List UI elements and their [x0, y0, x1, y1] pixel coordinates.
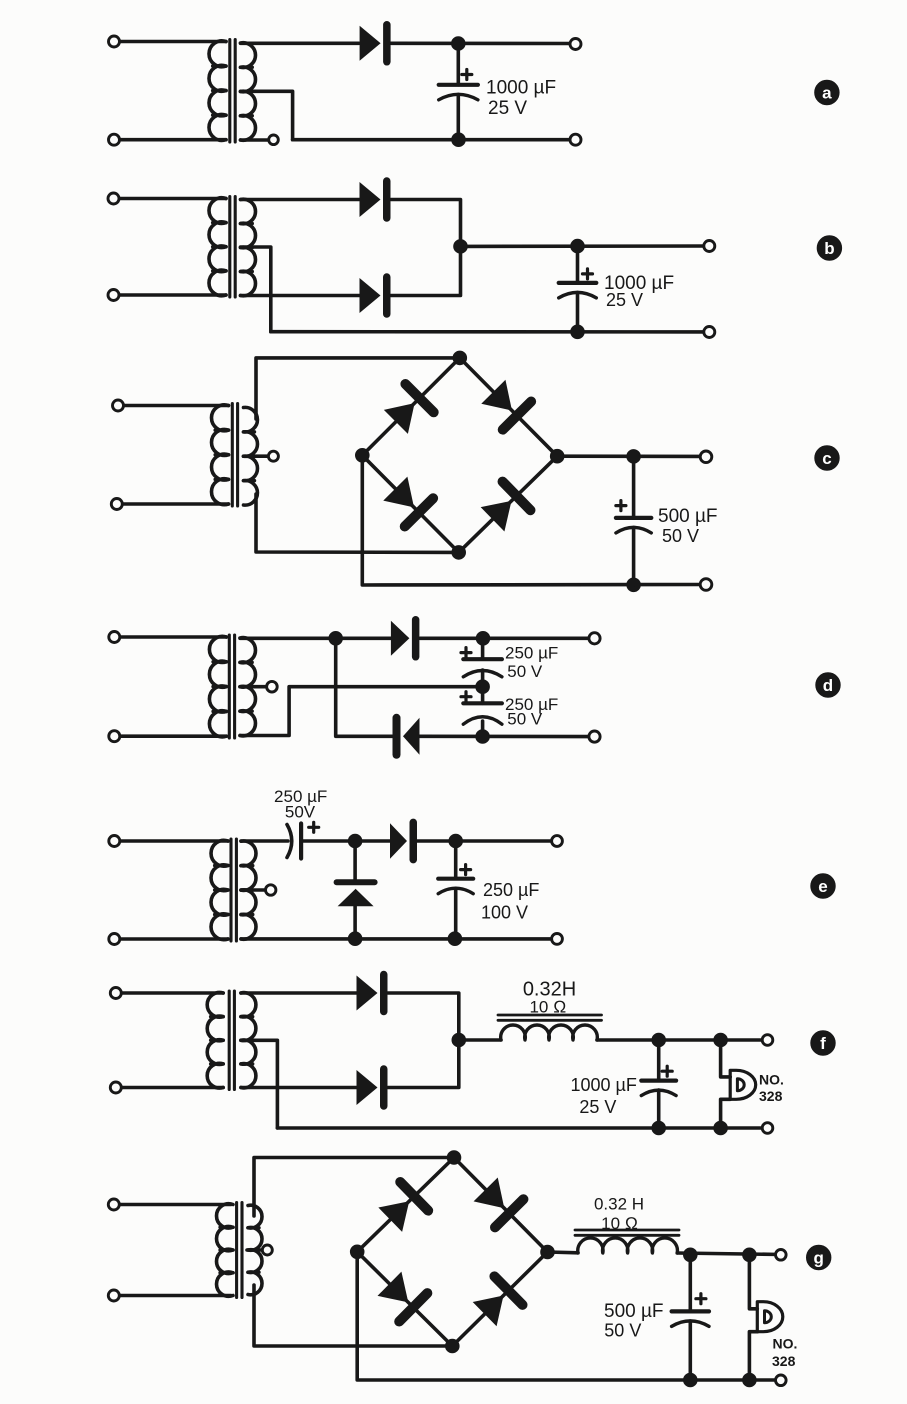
- capacitor C2e 250uF: [438, 865, 473, 894]
- wire bottom rail a: [293, 138, 576, 142]
- terminal input bottom g: [108, 1290, 119, 1301]
- label L1g value: [594, 1195, 644, 1234]
- badge b: [817, 236, 841, 260]
- wire junction drop d: [336, 638, 394, 736]
- node cap top a: [452, 37, 466, 51]
- node lamp bottom g: [743, 1373, 757, 1387]
- wire secondary tap e: [241, 888, 265, 892]
- wire cap1 bottom lead d: [481, 670, 485, 687]
- svg-text:b: b: [824, 239, 834, 258]
- wire top diode to cap d: [420, 636, 595, 640]
- wire bottom diode to cap d: [420, 734, 595, 738]
- wire cap bottom lead f: [657, 1090, 661, 1128]
- wire cap top lead a: [456, 44, 460, 85]
- label lamp type g: [772, 1336, 797, 1370]
- transformer T1d primary winding: [209, 636, 226, 736]
- node caps middle d: [476, 680, 490, 694]
- label C1b value: [604, 273, 674, 310]
- terminal output bottom f: [762, 1123, 773, 1134]
- wire secondary bottom to diode b: [241, 294, 360, 298]
- diode D1f top: [357, 975, 384, 1012]
- wire lamp top lead f: [721, 1040, 731, 1077]
- label C1e value: [274, 787, 327, 822]
- node cap bottom e: [448, 932, 462, 946]
- node lamp top f: [714, 1033, 728, 1047]
- wire bottom rail b: [271, 330, 710, 334]
- svg-text:c: c: [822, 449, 831, 468]
- node lamp top g: [743, 1248, 757, 1262]
- wire secondary tap to bottom rail f: [241, 1040, 278, 1128]
- svg-text:50 V: 50 V: [507, 710, 543, 729]
- wire primary top lead b: [114, 197, 227, 201]
- transformer T1d secondary winding: [240, 638, 256, 736]
- terminal secondary tap unused d: [267, 681, 278, 692]
- transformer T1f secondary winding: [241, 993, 256, 1088]
- transformer T1f primary winding: [207, 992, 223, 1088]
- transformer T1a primary winding: [209, 41, 226, 141]
- node bridge bottom g: [446, 1339, 460, 1353]
- wire secondary top to series cap e: [241, 839, 288, 843]
- wire primary top lead c: [118, 404, 229, 408]
- diode D2f bottom: [357, 1069, 384, 1106]
- svg-text:50 V: 50 V: [662, 526, 699, 546]
- svg-text:328: 328: [759, 1088, 783, 1104]
- capacitor C1b 1000uF: [559, 269, 597, 298]
- bridge diode D3c (left-bottom): [381, 475, 433, 527]
- wire secondary tap to bottom rail b: [241, 247, 271, 332]
- capacitor C1d 250uF: [461, 648, 502, 677]
- transformer T1g core: [237, 1203, 242, 1298]
- node cap bottom b: [571, 325, 585, 339]
- transformer T1b core: [230, 197, 235, 298]
- wire bridge left to bottom rail g: [357, 1252, 781, 1380]
- svg-text:10 Ω: 10 Ω: [601, 1214, 638, 1233]
- node bridge top g: [447, 1151, 461, 1165]
- diode D1a: [360, 25, 387, 62]
- diode D2d bottom (reversed): [397, 718, 420, 755]
- wire primary top lead a: [114, 40, 226, 44]
- transformer T1e secondary winding: [241, 841, 256, 939]
- transformer T1a secondary winding: [241, 43, 256, 141]
- svg-text:a: a: [822, 84, 832, 103]
- svg-text:500 µF: 500 µF: [604, 1301, 664, 1322]
- label C1d value: [505, 644, 558, 682]
- bridge diode D1c (left-top): [382, 384, 434, 436]
- capacitor C2d 250uF: [461, 692, 502, 725]
- node cap bottom f: [652, 1121, 666, 1135]
- bridge arm bottom-right c: [459, 456, 558, 552]
- bridge arm top-left g: [357, 1158, 454, 1252]
- svg-text:g: g: [814, 1249, 824, 1268]
- node bridge top c: [453, 351, 467, 365]
- node cap top g: [684, 1248, 698, 1262]
- svg-text:500 µF: 500 µF: [658, 506, 718, 527]
- bridge arm bottom-left g: [357, 1252, 452, 1346]
- node diode feed junction d: [329, 632, 343, 646]
- inductor L1f choke 0.32H: [501, 1025, 598, 1040]
- label C2d value: [505, 695, 558, 729]
- svg-text:50 V: 50 V: [604, 1321, 641, 1341]
- label C2e value: [481, 880, 539, 923]
- transformer T1f core: [229, 991, 234, 1090]
- wire output rail top b: [461, 244, 710, 248]
- wire primary top lead e: [114, 839, 228, 843]
- bridge arm top-right c: [460, 358, 557, 456]
- transformer T1b primary winding: [209, 198, 226, 296]
- node bridge left c: [356, 449, 370, 463]
- svg-text:0.32 H: 0.32 H: [594, 1195, 644, 1214]
- bridge arm top-left c: [362, 358, 460, 455]
- wire secondary top rail d: [240, 636, 391, 640]
- terminal output top e: [552, 836, 563, 847]
- wire bottom diode to node f: [388, 1040, 459, 1088]
- bridge diode D2g (top-right): [471, 1175, 523, 1227]
- bridge diode D2c (top-right): [479, 378, 531, 430]
- wire choke to output f: [597, 1038, 768, 1042]
- node cap bottom a: [452, 133, 466, 147]
- svg-text:10 Ω: 10 Ω: [529, 998, 566, 1017]
- transformer T1a core: [230, 40, 235, 143]
- terminal input top a: [109, 36, 120, 47]
- transformer T1g primary winding: [217, 1204, 233, 1297]
- wire secondary bottom stub to bridge bottom c: [256, 494, 459, 552]
- badge d: [816, 673, 840, 697]
- terminal input bottom d: [109, 731, 120, 742]
- node bridge right g: [541, 1245, 555, 1259]
- bridge diode D1g (left-top): [376, 1182, 428, 1234]
- badge c: [815, 446, 839, 470]
- inductor L1g choke 0.32H: [578, 1238, 678, 1253]
- transformer T1c core: [232, 404, 237, 507]
- wire shunt diode top lead e: [353, 841, 357, 882]
- node cap top f: [652, 1033, 666, 1047]
- terminal input bottom e: [109, 934, 120, 945]
- node cap bottom c: [627, 578, 641, 592]
- label C1f value: [571, 1075, 637, 1117]
- wire secondary top to diode b: [241, 198, 360, 202]
- bridge arm top-right g: [454, 1158, 548, 1253]
- terminal output bottom d: [589, 731, 600, 742]
- label L1f value: [523, 979, 576, 1017]
- wire node to choke f: [459, 1038, 501, 1042]
- wire bridge right to choke g: [548, 1250, 579, 1254]
- diode D1d top: [391, 620, 416, 657]
- inductor L1f core lines: [498, 1015, 602, 1020]
- wire primary top lead f: [116, 991, 223, 995]
- transformer T1c secondary winding: [244, 407, 258, 505]
- wire primary bottom lead b: [114, 293, 227, 297]
- terminal output bottom c: [700, 579, 712, 591]
- node cap top e: [449, 834, 463, 848]
- wire primary bottom lead e: [114, 937, 228, 941]
- wire cap bottom lead g: [688, 1321, 692, 1380]
- svg-text:25 V: 25 V: [606, 290, 643, 310]
- terminal input bottom f: [110, 1082, 121, 1093]
- capacitor C1a 1000uF: [439, 70, 478, 100]
- terminal output bottom a: [570, 134, 581, 145]
- bridge arm bottom-left c: [362, 455, 458, 552]
- badge a: [815, 80, 839, 104]
- bridge arm bottom-right g: [452, 1252, 547, 1346]
- wire choke to output g: [677, 1253, 781, 1255]
- wire top diode to node f: [388, 993, 459, 1040]
- svg-text:25 V: 25 V: [488, 98, 527, 119]
- capacitor C1c 500uF: [616, 501, 651, 533]
- label C1g value: [604, 1301, 664, 1341]
- wire secondary tap g: [247, 1248, 262, 1252]
- wire primary bottom lead c: [117, 502, 229, 506]
- pilot lamp NO.328 g: [757, 1302, 783, 1332]
- wire cap bottom lead b: [576, 293, 580, 332]
- wire primary top lead g: [114, 1203, 231, 1207]
- wire diode to output e: [417, 839, 557, 843]
- wire secondary tap d: [240, 685, 267, 689]
- svg-text:d: d: [823, 676, 833, 695]
- node doubler junction e: [348, 834, 362, 848]
- terminal output top b: [704, 241, 715, 252]
- label C1c value: [658, 506, 718, 546]
- wire bridge right to output c: [557, 454, 706, 458]
- terminal input top b: [108, 193, 119, 204]
- wire cap top lead e: [454, 841, 458, 879]
- transformer T1e primary winding: [211, 840, 228, 939]
- wire series cap to node e: [301, 839, 390, 843]
- capacitor C1g 500uF: [672, 1294, 709, 1327]
- wire bottom rail f: [277, 1126, 767, 1130]
- pilot lamp NO.328 f: [730, 1070, 756, 1099]
- transformer T1g secondary winding: [248, 1205, 262, 1295]
- svg-text:250 µF: 250 µF: [483, 880, 539, 900]
- transformer T1d core: [229, 635, 234, 738]
- node cap top b: [571, 239, 585, 253]
- wire secondary top to diode f: [241, 991, 357, 995]
- wire secondary bottom stub a: [241, 138, 269, 142]
- wire cap1 top lead d: [481, 638, 485, 659]
- svg-text:50V: 50V: [285, 803, 316, 822]
- terminal secondary tap unused e: [266, 885, 276, 895]
- wire diode to node a: [391, 41, 576, 45]
- wire shunt diode bottom lead e: [353, 906, 357, 938]
- diode D2e series: [390, 822, 413, 859]
- transformer T1e core: [231, 839, 236, 941]
- terminal input bottom b: [108, 290, 119, 301]
- wire cap top lead c: [632, 456, 636, 518]
- transformer T1c primary winding: [211, 405, 228, 505]
- wire secondary top to diode a: [241, 41, 360, 45]
- terminal output bottom g: [776, 1375, 787, 1386]
- wire bottom rail e: [241, 937, 557, 941]
- svg-text:1000 µF: 1000 µF: [486, 78, 556, 99]
- capacitor C1e series 250uF: [287, 822, 319, 858]
- wire cap bottom lead a: [456, 95, 460, 140]
- node shunt diode bottom e: [348, 932, 362, 946]
- svg-text:25 V: 25 V: [579, 1097, 616, 1117]
- wire cap top lead g: [688, 1255, 692, 1312]
- wire cap top lead f: [657, 1040, 661, 1081]
- badge f: [811, 1031, 835, 1055]
- wire lamp bottom lead g: [749, 1332, 757, 1380]
- node cap bottom g: [684, 1373, 698, 1387]
- terminal output top a: [570, 39, 581, 50]
- capacitor C1f 1000uF: [641, 1066, 676, 1095]
- terminal output top g: [776, 1250, 787, 1261]
- wire secondary bottom to diode f: [241, 1086, 357, 1090]
- label lamp type f: [759, 1072, 784, 1105]
- wire primary bottom lead d: [114, 734, 226, 738]
- diode D1e shunt (pointing up): [337, 882, 375, 906]
- terminal input bottom a: [109, 134, 120, 145]
- wire cap2 top lead d: [481, 687, 485, 704]
- wire primary bottom lead a: [114, 138, 226, 142]
- terminal input top f: [110, 988, 121, 999]
- wire lamp bottom lead f: [721, 1099, 731, 1128]
- wire secondary bottom stub to bridge bottom g: [254, 1285, 452, 1346]
- bridge diode D4c (bottom-right): [479, 482, 531, 534]
- terminal input top e: [109, 836, 120, 847]
- node bridge bottom c: [452, 546, 466, 560]
- wire secondary bottom to middle rail d: [240, 687, 483, 736]
- wire secondary top stub to bridge top g: [254, 1158, 454, 1217]
- svg-text:NO.: NO.: [759, 1072, 784, 1088]
- svg-text:100 V: 100 V: [481, 903, 528, 923]
- badge g: [807, 1245, 831, 1269]
- terminal input bottom c: [111, 499, 122, 510]
- badge e: [811, 874, 835, 898]
- svg-text:1000 µF: 1000 µF: [571, 1075, 637, 1095]
- wire cap2 bottom lead d: [481, 721, 485, 737]
- svg-text:f: f: [820, 1034, 826, 1053]
- wire secondary tap to bottom rail a: [241, 91, 293, 139]
- wire cap bottom lead e: [454, 889, 458, 939]
- wire secondary top stub to bridge top c: [256, 358, 460, 419]
- terminal input top d: [109, 632, 120, 643]
- wire bridge left to bottom rail c: [362, 455, 706, 585]
- node cap2 bottom d: [476, 730, 490, 744]
- diode D1b top: [360, 181, 387, 218]
- diode D2b bottom: [360, 277, 387, 314]
- svg-text:250 µF: 250 µF: [505, 644, 558, 663]
- wire cap bottom lead c: [632, 528, 636, 585]
- terminal secondary tap unused g: [262, 1245, 272, 1255]
- wire secondary tap c: [244, 454, 269, 458]
- node bridge right c: [550, 449, 564, 463]
- terminal output top f: [762, 1035, 773, 1046]
- node diodes junction f: [452, 1033, 466, 1047]
- terminal output bottom e: [552, 934, 563, 945]
- svg-text:328: 328: [772, 1353, 796, 1369]
- inductor L1g core lines: [575, 1230, 679, 1235]
- wire lamp top lead g: [749, 1255, 757, 1309]
- svg-text:50 V: 50 V: [507, 662, 543, 681]
- terminal input top c: [113, 400, 124, 411]
- svg-text:NO.: NO.: [773, 1336, 798, 1352]
- wire top diode to node b: [391, 200, 461, 247]
- wire primary bottom lead f: [116, 1086, 223, 1090]
- bridge diode D4g (bottom-right): [471, 1276, 523, 1328]
- wire primary bottom lead g: [114, 1294, 231, 1298]
- node lamp bottom f: [714, 1121, 728, 1135]
- wire primary top lead d: [114, 635, 226, 639]
- wire cap top lead b: [576, 246, 580, 283]
- wire bottom diode to node b: [391, 246, 461, 295]
- terminal output top c: [700, 451, 712, 463]
- terminal output bottom b: [704, 327, 715, 338]
- transformer T1b secondary winding: [241, 199, 256, 296]
- terminal output top d: [589, 633, 600, 644]
- node cap1 top d: [476, 632, 490, 646]
- terminal secondary unused a: [269, 135, 279, 145]
- node bridge left g: [350, 1245, 364, 1259]
- label C1a value: [486, 78, 556, 120]
- terminal secondary tap unused c: [268, 451, 278, 461]
- terminal input top g: [108, 1199, 119, 1210]
- node cap top c: [627, 450, 641, 464]
- svg-text:e: e: [818, 877, 827, 896]
- node diodes junction b: [454, 240, 468, 254]
- bridge diode D3g (left-bottom): [375, 1270, 427, 1322]
